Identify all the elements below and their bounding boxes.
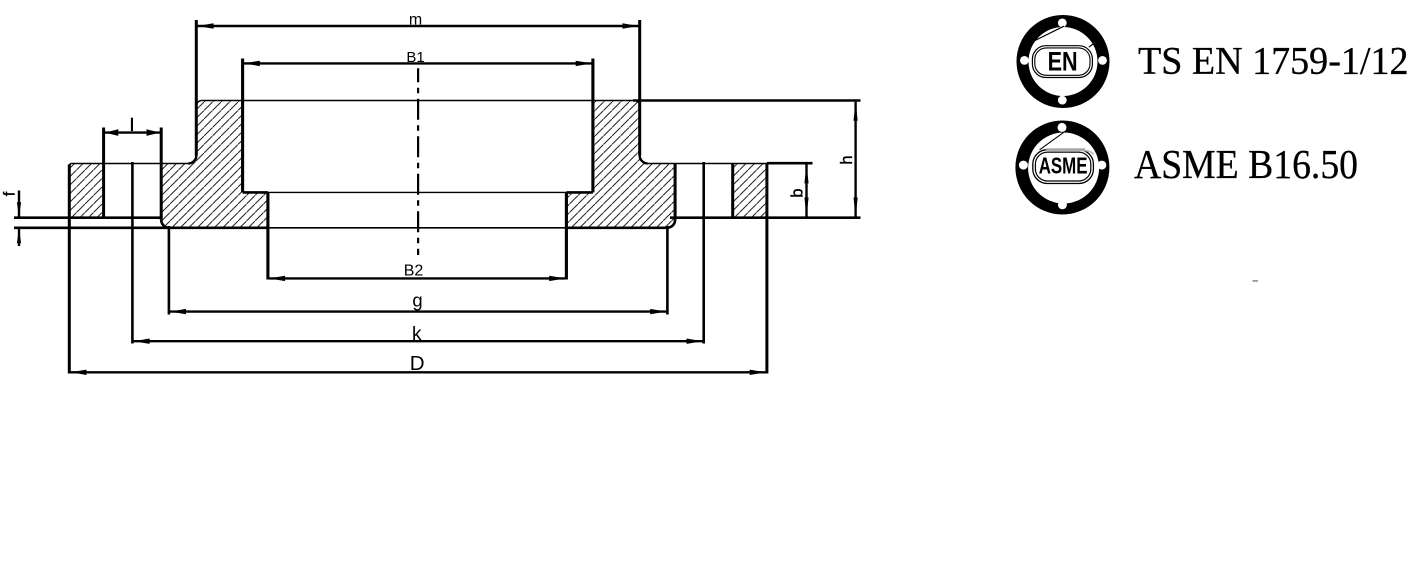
svg-text:f: f — [2, 191, 19, 196]
svg-text:ASME B16.50: ASME B16.50 — [1134, 141, 1358, 187]
svg-text:D: D — [410, 352, 425, 375]
svg-text:b: b — [789, 188, 807, 197]
svg-text:B1: B1 — [406, 49, 424, 66]
svg-text:k: k — [412, 324, 422, 345]
svg-text:h: h — [838, 155, 856, 164]
svg-text:TS EN 1759-1/12: TS EN 1759-1/12 — [1138, 40, 1409, 83]
svg-text:ASME: ASME — [1039, 153, 1088, 179]
svg-text:g: g — [412, 289, 422, 310]
svg-text:EN: EN — [1048, 46, 1078, 76]
svg-text:B2: B2 — [404, 262, 424, 279]
svg-text:m: m — [409, 11, 422, 28]
